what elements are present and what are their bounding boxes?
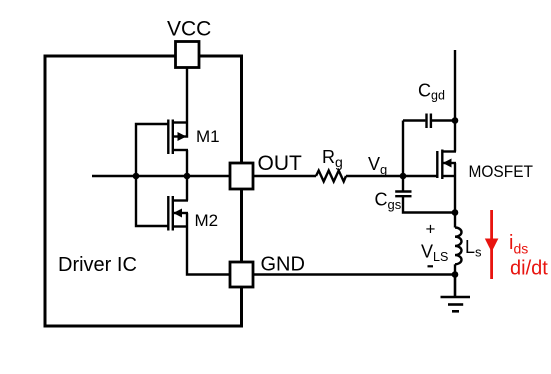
wire Vg up to Cgd branch — [402, 121, 404, 177]
ground — [441, 275, 471, 312]
svg-text:+: + — [426, 220, 436, 239]
svg-text:M1: M1 — [196, 127, 220, 146]
node Cgd drain junction — [452, 117, 459, 124]
svg-text:M2: M2 — [195, 211, 219, 230]
svg-text:GND: GND — [261, 254, 305, 276]
wire mid OUT rail — [136, 175, 232, 177]
svg-text:Vg: Vg — [368, 154, 387, 177]
node Vg — [400, 173, 407, 180]
node input junction — [133, 173, 140, 180]
wire Cgs bottom lead — [403, 197, 455, 213]
Driver IC box — [45, 56, 242, 326]
svg-text:MOSFET: MOSFET — [469, 162, 534, 181]
wire gate bus — [136, 124, 169, 226]
wire VCC to M1 drain — [186, 66, 188, 138]
svg-text:Cgd: Cgd — [418, 81, 445, 103]
svg-text:VLS: VLS — [421, 242, 448, 265]
node ground junction — [452, 271, 459, 278]
VCC pad — [176, 42, 200, 68]
transistor MOSFET — [437, 150, 456, 180]
svg-text:OUT: OUT — [258, 152, 303, 175]
wire drain top — [454, 50, 456, 152]
wire Cgd left lead — [403, 119, 425, 121]
inductor Ls — [455, 228, 462, 265]
wire resistor to gate — [346, 175, 438, 177]
wire GND rail — [253, 273, 455, 275]
wire M2 source to GND pad — [187, 213, 232, 275]
transistor M2 — [168, 196, 188, 231]
capacitor Cgd — [427, 114, 431, 129]
svg-text:di/dt: di/dt — [510, 258, 548, 280]
node Cgs source junction — [452, 209, 459, 216]
wire M1 source to OUT node — [186, 150, 188, 177]
wire Cgd right lead — [432, 119, 455, 121]
wire OUT to resistor — [253, 175, 316, 177]
wire inductor to ground node — [454, 264, 456, 274]
svg-text:ids: ids — [509, 232, 528, 257]
node M1 M2 junction — [184, 173, 191, 180]
capacitor Cgs — [395, 192, 411, 197]
svg-text:Rg: Rg — [322, 147, 343, 170]
svg-text:Ls: Ls — [465, 237, 482, 260]
wire MOSFET source down — [454, 163, 456, 228]
OUT pad — [230, 163, 253, 189]
label minus — [428, 265, 434, 267]
transistor M1 — [168, 120, 188, 155]
wire input lead — [92, 175, 136, 177]
svg-text:VCC: VCC — [167, 18, 211, 41]
GND pad — [230, 262, 253, 287]
wire M2 drain — [186, 175, 188, 201]
current arrow ids — [485, 210, 499, 279]
svg-text:Driver IC: Driver IC — [58, 254, 137, 276]
wire Cgs top lead — [402, 176, 404, 191]
resistor Rg — [316, 171, 346, 182]
svg-text:Cgs: Cgs — [375, 190, 402, 213]
